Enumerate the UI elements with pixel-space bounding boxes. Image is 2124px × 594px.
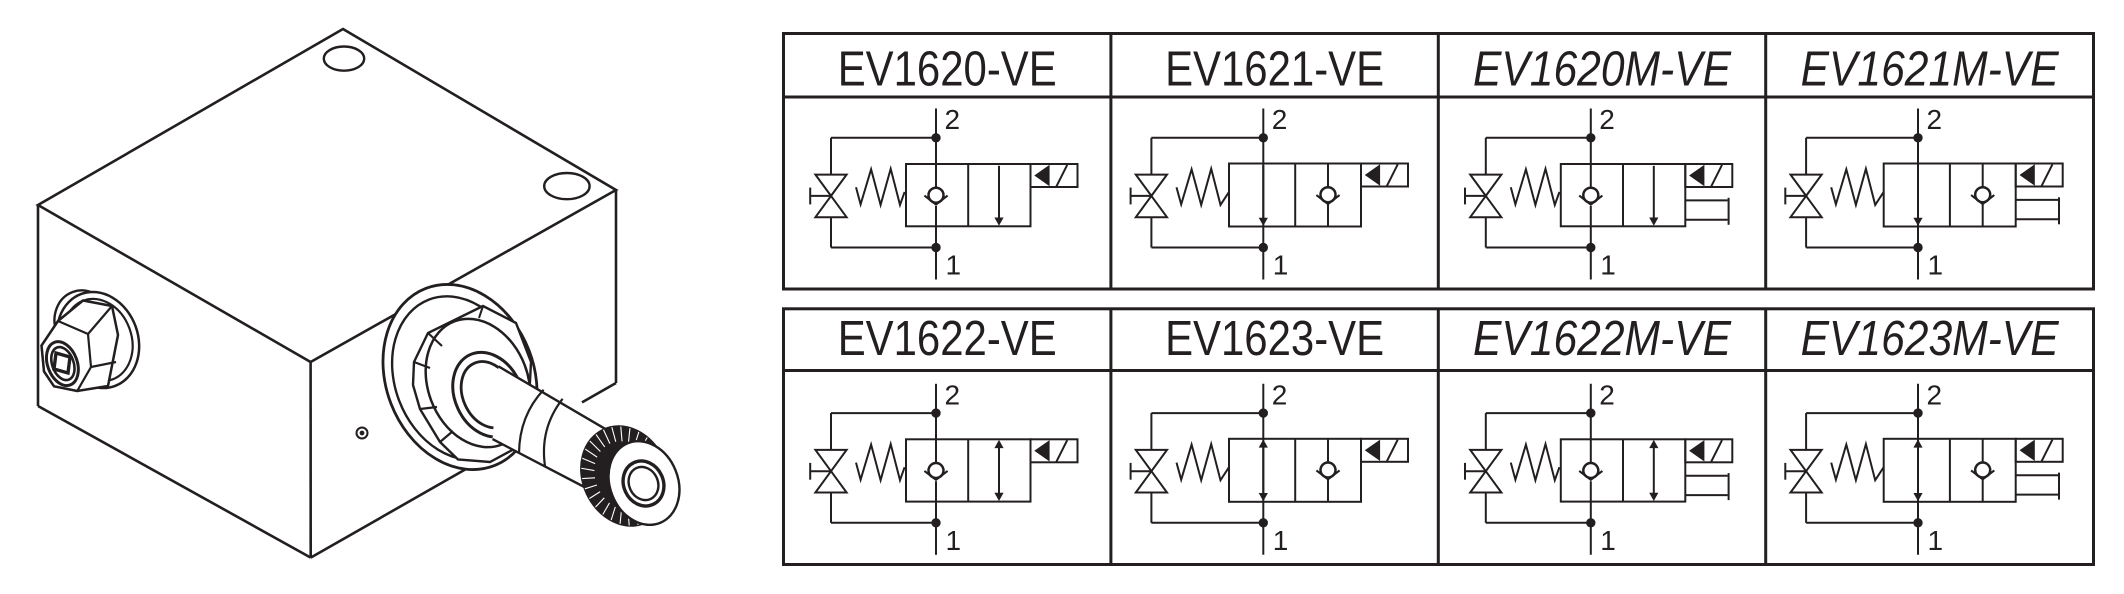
gland nut facet c xyxy=(420,407,437,409)
svg-text:1: 1 xyxy=(946,525,962,556)
knob socket outer xyxy=(616,454,671,512)
svg-text:1: 1 xyxy=(1928,525,1944,556)
valve body box (EV1623-VE) xyxy=(1229,439,1361,502)
flow arrow line (EV1620-VE) xyxy=(998,166,1000,219)
front face screw hole xyxy=(357,428,368,439)
svg-text:1: 1 xyxy=(1273,250,1289,281)
upper table header separator xyxy=(784,96,2094,99)
manual valve handle stem (EV1623-VE) xyxy=(1131,470,1152,472)
solenoid slash (EV1623-VE) xyxy=(1387,440,1398,462)
valve body divider (EV1623-VE) xyxy=(1294,439,1296,502)
junction dot top (EV1622M-VE) xyxy=(1587,409,1594,416)
check seat V (EV1623-VE) xyxy=(1316,470,1339,479)
block bottom-left edge xyxy=(38,406,311,558)
wire top horizontal (EV1620M-VE) xyxy=(1486,137,1591,139)
knob socket inner xyxy=(623,462,663,505)
flange outer ellipse xyxy=(357,262,563,492)
manual shutoff valve lower triangle (EV1622-VE) xyxy=(815,471,846,492)
manual override line upper (EV1620M-VE) xyxy=(1685,199,1727,201)
wire left lower vertical (EV1623M-VE) xyxy=(1805,493,1807,523)
wire top horizontal (EV1621-VE) xyxy=(1151,137,1263,139)
valve body box (EV1620-VE) xyxy=(906,164,1031,226)
manual valve handle stem (EV1622-VE) xyxy=(810,470,831,472)
svg-text:EV1621-VE: EV1621-VE xyxy=(1165,43,1384,97)
front face screw hole center xyxy=(360,431,363,434)
junction dot bottom (EV1621-VE) xyxy=(1260,244,1267,251)
solenoid arrow triangle (EV1620M-VE) xyxy=(1689,165,1704,186)
flow arrow head up (EV1622-VE) xyxy=(994,440,1003,448)
solenoid slash (EV1622-VE) xyxy=(1056,440,1067,462)
node port 2 line (EV1623M-VE) xyxy=(1917,384,1919,555)
manual override line upper (EV1621M-VE) xyxy=(2016,199,2058,201)
check seat V (EV1621M-VE) xyxy=(1971,195,1994,204)
svg-text:2: 2 xyxy=(1927,379,1943,410)
svg-text:1: 1 xyxy=(946,250,962,281)
wire left upper vertical (EV1621M-VE) xyxy=(1805,138,1807,175)
shaft root ring outer xyxy=(439,341,537,449)
wire left upper vertical (EV1623M-VE) xyxy=(1805,413,1807,450)
check seat line upper (EV1621M-VE) xyxy=(1982,164,1984,188)
block bottom-right edge segment a xyxy=(311,447,505,558)
solenoid slash (EV1621M-VE) xyxy=(2042,164,2053,186)
flow arrow line (EV1620M-VE) xyxy=(1653,166,1655,219)
node port 2 line (EV1621M-VE) xyxy=(1917,109,1919,280)
svg-text:EV1621M-VE: EV1621M-VE xyxy=(1801,43,2060,97)
hex fitting facet edge a xyxy=(88,306,112,334)
manual valve handle stem (EV1620M-VE) xyxy=(1465,195,1486,197)
solenoid coil box (EV1622-VE) xyxy=(1031,439,1078,462)
svg-text:EV1622-VE: EV1622-VE xyxy=(838,312,1057,366)
svg-text:1: 1 xyxy=(1928,250,1944,281)
junction dot bottom (EV1623M-VE) xyxy=(1914,519,1921,526)
junction dot bottom (EV1621M-VE) xyxy=(1914,244,1921,251)
check seat line lower (EV1621-VE) xyxy=(1327,204,1329,227)
check ball circle (EV1621M-VE) xyxy=(1975,187,1990,202)
manual shutoff valve upper triangle (EV1622-VE) xyxy=(815,450,846,471)
manual override line lower (EV1623M-VE) xyxy=(2016,494,2058,496)
spring (EV1623-VE) xyxy=(1177,444,1230,480)
svg-text:2: 2 xyxy=(1599,104,1615,135)
manual valve handle bar (EV1620-VE) xyxy=(809,188,811,205)
lower table column divider 2 xyxy=(1437,309,1440,565)
manual shutoff valve upper triangle (EV1621-VE) xyxy=(1136,175,1167,196)
check ball circle (EV1621-VE) xyxy=(1321,187,1336,202)
wire top horizontal (EV1623M-VE) xyxy=(1806,412,1918,414)
wire bottom horizontal (EV1621-VE) xyxy=(1151,247,1263,249)
flow arrow head down (EV1622M-VE) xyxy=(1649,493,1658,501)
solenoid arrow triangle (EV1621-VE) xyxy=(1365,164,1380,185)
flow arrow line (EV1621-VE) xyxy=(1262,165,1264,218)
svg-text:1: 1 xyxy=(1600,525,1616,556)
svg-text:EV1622M-VE: EV1622M-VE xyxy=(1473,312,1732,366)
spring (EV1622-VE) xyxy=(856,444,905,480)
block bottom-right edge segment b xyxy=(582,383,616,402)
junction dot top (EV1622-VE) xyxy=(932,409,939,416)
hex fitting flange xyxy=(44,280,153,399)
solenoid arrow triangle (EV1623M-VE) xyxy=(2020,440,2035,461)
wire top horizontal (EV1621M-VE) xyxy=(1806,137,1918,139)
check ball circle (EV1620M-VE) xyxy=(1583,188,1598,203)
valve body divider (EV1622M-VE) xyxy=(1622,439,1624,501)
manual shutoff valve upper triangle (EV1622M-VE) xyxy=(1470,450,1501,471)
manual valve handle stem (EV1621-VE) xyxy=(1131,195,1152,197)
knob knurl ridge highlights xyxy=(581,427,660,526)
upper table outer border xyxy=(784,34,2094,290)
wire left lower vertical (EV1620-VE) xyxy=(830,217,832,247)
hex fitting square socket xyxy=(54,353,70,373)
check ball circle (EV1622M-VE) xyxy=(1583,463,1598,478)
spring (EV1621-VE) xyxy=(1177,169,1230,205)
hex fitting nut front face xyxy=(42,321,92,391)
manual shutoff valve lower triangle (EV1623-VE) xyxy=(1136,471,1167,492)
svg-text:2: 2 xyxy=(945,104,961,135)
junction dot top (EV1623-VE) xyxy=(1260,409,1267,416)
flow arrow head up (EV1622M-VE) xyxy=(1649,440,1658,448)
manual shutoff valve lower triangle (EV1623M-VE) xyxy=(1791,471,1822,492)
check seat line lower (EV1623-VE) xyxy=(1327,479,1329,502)
hex fitting flange inner rim xyxy=(52,289,144,391)
shaft collar end arc xyxy=(519,390,544,453)
knob face xyxy=(596,430,691,535)
solenoid slash (EV1620M-VE) xyxy=(1711,165,1722,187)
manual shutoff valve lower triangle (EV1620M-VE) xyxy=(1470,196,1501,217)
valve body box (EV1622-VE) xyxy=(906,439,1031,501)
check seat line upper (EV1623-VE) xyxy=(1327,439,1329,463)
hex fitting boss outer ring xyxy=(41,337,84,390)
solenoid slash (EV1622M-VE) xyxy=(1711,440,1722,462)
flow arrow head down (EV1623-VE) xyxy=(1259,493,1268,501)
gland nut silhouette xyxy=(413,306,531,462)
check seat V (EV1622M-VE) xyxy=(1579,471,1602,480)
solenoid coil box (EV1622M-VE) xyxy=(1685,439,1732,462)
wire top horizontal (EV1623-VE) xyxy=(1151,412,1263,414)
junction dot top (EV1623M-VE) xyxy=(1914,409,1921,416)
node port 2 line upper (EV1622M-VE) xyxy=(1590,384,1592,463)
solenoid coil box (EV1621M-VE) xyxy=(2016,164,2063,187)
wire top horizontal (EV1622-VE) xyxy=(831,412,936,414)
hex fitting back washer xyxy=(45,282,122,364)
manual override line upper (EV1622M-VE) xyxy=(1685,475,1727,477)
gland nut facet a xyxy=(428,333,442,346)
svg-text:1: 1 xyxy=(1600,250,1616,281)
junction dot bottom (EV1622M-VE) xyxy=(1587,519,1594,526)
manual shutoff valve lower triangle (EV1621-VE) xyxy=(1136,196,1167,217)
wire top horizontal (EV1622M-VE) xyxy=(1486,412,1591,414)
valve body box (EV1621M-VE) xyxy=(1884,164,2016,227)
junction dot top (EV1620-VE) xyxy=(932,134,939,141)
svg-text:2: 2 xyxy=(1927,104,1943,135)
valve body box (EV1623M-VE) xyxy=(1884,439,2016,502)
manual override line upper (EV1623M-VE) xyxy=(2016,474,2058,476)
solenoid arrow triangle (EV1620-VE) xyxy=(1034,165,1049,186)
shaft upper edge xyxy=(499,366,614,433)
svg-text:EV1623-VE: EV1623-VE xyxy=(1165,312,1384,366)
manual valve handle bar (EV1621-VE) xyxy=(1130,188,1132,205)
check seat V (EV1620-VE) xyxy=(924,196,947,205)
valve body divider (EV1621M-VE) xyxy=(1949,164,1951,227)
upper table column divider 2 xyxy=(1437,34,1440,290)
junction dot top (EV1621M-VE) xyxy=(1914,134,1921,141)
spring (EV1620M-VE) xyxy=(1511,169,1560,205)
manual valve handle stem (EV1622M-VE) xyxy=(1465,470,1486,472)
svg-text:EV1620M-VE: EV1620M-VE xyxy=(1473,43,1732,97)
lower table header separator xyxy=(784,369,2094,372)
manual override end bar (EV1623M-VE) xyxy=(2058,473,2060,500)
valve body divider (EV1620M-VE) xyxy=(1622,164,1624,226)
shaft neck start arc xyxy=(544,399,563,466)
solenoid coil box (EV1623M-VE) xyxy=(2016,439,2063,462)
node port 1 line lower (EV1620-VE) xyxy=(935,206,937,280)
check ball circle (EV1620-VE) xyxy=(929,188,944,203)
node port 1 line lower (EV1622-VE) xyxy=(935,481,937,555)
check seat V (EV1621-VE) xyxy=(1316,195,1339,204)
valve body divider (EV1621-VE) xyxy=(1294,164,1296,227)
node port 2 line upper (EV1622-VE) xyxy=(935,384,937,463)
check seat V (EV1622-VE) xyxy=(924,471,947,480)
manual shutoff valve upper triangle (EV1620M-VE) xyxy=(1470,175,1501,196)
wire top horizontal (EV1620-VE) xyxy=(831,137,936,139)
solenoid coil box (EV1620-VE) xyxy=(1031,164,1078,187)
spring (EV1621M-VE) xyxy=(1831,169,1884,205)
solenoid slash (EV1623M-VE) xyxy=(2042,440,2053,462)
check ball circle (EV1623-VE) xyxy=(1321,463,1336,478)
valve body divider (EV1620-VE) xyxy=(967,164,969,226)
wire bottom horizontal (EV1622-VE) xyxy=(831,522,936,524)
manual valve handle bar (EV1620M-VE) xyxy=(1464,188,1466,205)
block front vertical edge xyxy=(309,362,312,558)
manual override line lower (EV1620M-VE) xyxy=(1685,219,1727,221)
wire bottom horizontal (EV1623-VE) xyxy=(1151,522,1263,524)
flow arrow head down (EV1622-VE) xyxy=(994,493,1003,501)
solenoid arrow triangle (EV1623-VE) xyxy=(1365,440,1380,461)
solenoid coil box (EV1621-VE) xyxy=(1361,164,1408,187)
junction dot bottom (EV1622-VE) xyxy=(932,519,939,526)
check seat line upper (EV1621-VE) xyxy=(1327,164,1329,188)
junction dot bottom (EV1620-VE) xyxy=(932,244,939,251)
solenoid coil box (EV1620M-VE) xyxy=(1685,164,1732,187)
check seat line upper (EV1623M-VE) xyxy=(1982,439,1984,463)
check seat V (EV1620M-VE) xyxy=(1579,196,1602,205)
svg-text:2: 2 xyxy=(1272,379,1288,410)
manual override end bar (EV1621M-VE) xyxy=(2058,197,2060,224)
junction dot top (EV1620M-VE) xyxy=(1587,134,1594,141)
manual override end bar (EV1622M-VE) xyxy=(1728,473,1730,500)
wire left upper vertical (EV1620-VE) xyxy=(830,138,832,175)
manual shutoff valve lower triangle (EV1620-VE) xyxy=(815,196,846,217)
flange inner rim xyxy=(369,277,549,480)
check ball circle (EV1623M-VE) xyxy=(1975,463,1990,478)
node port 2 line (EV1623-VE) xyxy=(1262,384,1264,555)
junction dot bottom (EV1623-VE) xyxy=(1260,519,1267,526)
manual shutoff valve lower triangle (EV1622M-VE) xyxy=(1470,471,1501,492)
wire left upper vertical (EV1622M-VE) xyxy=(1485,413,1487,450)
node port 2 line upper (EV1620M-VE) xyxy=(1590,109,1592,188)
manual valve handle bar (EV1622-VE) xyxy=(809,463,811,480)
flow arrow line (EV1623-VE) xyxy=(1262,447,1264,494)
wire bottom horizontal (EV1620-VE) xyxy=(831,247,936,249)
wire bottom horizontal (EV1620M-VE) xyxy=(1486,247,1591,249)
manual valve handle bar (EV1621M-VE) xyxy=(1784,188,1786,205)
junction dot top (EV1621-VE) xyxy=(1260,134,1267,141)
wire left lower vertical (EV1620M-VE) xyxy=(1485,217,1487,247)
solenoid slash (EV1620-VE) xyxy=(1056,165,1067,187)
flow arrow line (EV1622-VE) xyxy=(998,448,1000,494)
svg-text:1: 1 xyxy=(1273,525,1289,556)
manual shutoff valve upper triangle (EV1621M-VE) xyxy=(1791,175,1822,196)
manual valve handle stem (EV1621M-VE) xyxy=(1785,195,1806,197)
manual override end bar (EV1620M-VE) xyxy=(1728,198,1730,225)
valve body box (EV1622M-VE) xyxy=(1561,439,1686,501)
wire left lower vertical (EV1621M-VE) xyxy=(1805,217,1807,247)
block left vertical edge xyxy=(37,205,40,406)
wire bottom horizontal (EV1621M-VE) xyxy=(1806,247,1918,249)
svg-text:EV1620-VE: EV1620-VE xyxy=(838,43,1057,97)
manual shutoff valve upper triangle (EV1623-VE) xyxy=(1136,450,1167,471)
valve body box (EV1620M-VE) xyxy=(1561,164,1686,226)
top face hole right xyxy=(544,173,589,199)
check ball circle (EV1622-VE) xyxy=(929,463,944,478)
node port 1 line lower (EV1622M-VE) xyxy=(1590,481,1592,555)
manual shutoff valve upper triangle (EV1623M-VE) xyxy=(1791,450,1822,471)
manual override line lower (EV1621M-VE) xyxy=(2016,218,2058,220)
hex fitting boss inner ring xyxy=(47,344,79,383)
gland nut facet d xyxy=(440,431,453,442)
flow arrow head up (EV1623-VE) xyxy=(1259,439,1268,447)
wire left upper vertical (EV1622-VE) xyxy=(830,413,832,450)
flow arrow head down (EV1620-VE) xyxy=(994,218,1003,226)
wire left upper vertical (EV1621-VE) xyxy=(1150,138,1152,175)
svg-text:2: 2 xyxy=(945,379,961,410)
hex fitting facet edge b xyxy=(91,362,116,367)
shaft body xyxy=(493,366,614,493)
flow arrow line (EV1622M-VE) xyxy=(1653,448,1655,494)
gland nut facet b xyxy=(414,362,430,368)
lower table column divider 1 xyxy=(1109,309,1112,565)
flow arrow line (EV1623M-VE) xyxy=(1917,447,1919,494)
manual shutoff valve lower triangle (EV1621M-VE) xyxy=(1791,196,1822,217)
node port 1 line lower (EV1620M-VE) xyxy=(1590,206,1592,280)
shaft root ring inner xyxy=(451,353,526,437)
manual valve handle bar (EV1622M-VE) xyxy=(1464,463,1466,480)
shaft lower edge xyxy=(493,439,593,491)
flow arrow head down (EV1621-VE) xyxy=(1259,218,1268,226)
solenoid coil box (EV1623-VE) xyxy=(1361,439,1408,462)
node port 2 line upper (EV1620-VE) xyxy=(935,109,937,188)
block top face outline xyxy=(38,29,616,362)
wire left lower vertical (EV1623-VE) xyxy=(1150,493,1152,523)
block right vertical edge xyxy=(615,190,618,383)
solenoid arrow triangle (EV1622-VE) xyxy=(1034,440,1049,461)
manual override line lower (EV1622M-VE) xyxy=(1685,494,1727,496)
check seat line lower (EV1623M-VE) xyxy=(1982,479,1984,502)
solenoid slash (EV1621-VE) xyxy=(1387,164,1398,186)
manual valve handle stem (EV1620-VE) xyxy=(810,195,831,197)
wire bottom horizontal (EV1623M-VE) xyxy=(1806,522,1918,524)
manual valve handle stem (EV1623M-VE) xyxy=(1785,470,1806,472)
wire left upper vertical (EV1620M-VE) xyxy=(1485,138,1487,175)
spring (EV1622M-VE) xyxy=(1511,444,1560,480)
svg-text:2: 2 xyxy=(1272,104,1288,135)
flow arrow head down (EV1620M-VE) xyxy=(1649,218,1658,226)
wire left upper vertical (EV1623-VE) xyxy=(1150,413,1152,450)
check seat line lower (EV1621M-VE) xyxy=(1982,204,1984,227)
flow arrow head up (EV1623M-VE) xyxy=(1913,439,1922,447)
gland nut front face xyxy=(408,303,549,462)
lower table column divider 3 xyxy=(1764,309,1767,565)
lower table outer border xyxy=(784,309,2094,565)
check seat V (EV1623M-VE) xyxy=(1971,470,1994,479)
wire left lower vertical (EV1622-VE) xyxy=(830,493,832,523)
solenoid arrow triangle (EV1621M-VE) xyxy=(2020,164,2035,185)
solenoid arrow triangle (EV1622M-VE) xyxy=(1689,440,1704,461)
valve body divider (EV1622-VE) xyxy=(967,439,969,501)
upper table column divider 3 xyxy=(1764,34,1767,290)
upper table column divider 1 xyxy=(1109,34,1112,290)
manual valve handle bar (EV1623M-VE) xyxy=(1784,463,1786,480)
gland nut facet e xyxy=(479,306,483,318)
junction dot bottom (EV1620M-VE) xyxy=(1587,244,1594,251)
top face hole rear xyxy=(324,47,364,71)
wire left lower vertical (EV1621-VE) xyxy=(1150,217,1152,247)
flow arrow line (EV1621M-VE) xyxy=(1917,165,1919,218)
manual valve handle bar (EV1623-VE) xyxy=(1130,463,1132,480)
spring (EV1620-VE) xyxy=(856,169,905,205)
knob knurled band xyxy=(565,412,684,540)
flow arrow head down (EV1621M-VE) xyxy=(1913,218,1922,226)
wire left lower vertical (EV1622M-VE) xyxy=(1485,493,1487,523)
manual shutoff valve upper triangle (EV1620-VE) xyxy=(815,175,846,196)
valve body box (EV1621-VE) xyxy=(1229,164,1361,227)
hex fitting nut silhouette xyxy=(42,301,119,392)
svg-text:EV1623M-VE: EV1623M-VE xyxy=(1801,312,2060,366)
svg-text:2: 2 xyxy=(1599,379,1615,410)
flow arrow head down (EV1623M-VE) xyxy=(1913,493,1922,501)
spring (EV1623M-VE) xyxy=(1831,444,1884,480)
node port 2 line (EV1621-VE) xyxy=(1262,109,1264,280)
wire bottom horizontal (EV1622M-VE) xyxy=(1486,522,1591,524)
valve body divider (EV1623M-VE) xyxy=(1949,439,1951,502)
